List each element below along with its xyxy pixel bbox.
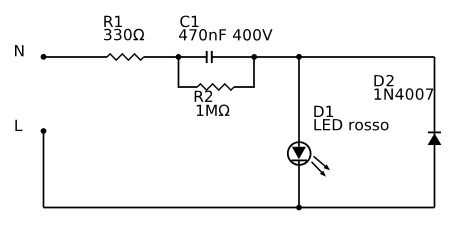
node L terminal dot (41, 128, 47, 134)
node junction right of C1 (251, 54, 257, 60)
label R2 (195, 91, 213, 102)
diode D2 (428, 132, 442, 145)
wire bottom return (44, 207, 435, 209)
resistor R1 (107, 54, 144, 60)
node junction below LED (296, 205, 302, 211)
wire R2 branch left drop (179, 57, 198, 88)
label D1 value LED rosso (314, 119, 388, 130)
wire from R1 to C1 left plate (144, 56, 206, 58)
node junction left of C1 (176, 54, 182, 60)
label D2 value 1N4007 (375, 88, 434, 100)
wire right vertical (434, 57, 436, 208)
wire vertical into LED anode (298, 57, 300, 147)
wire R2 branch right rise (234, 57, 254, 88)
label D1 (314, 106, 333, 117)
label C1 (180, 16, 198, 28)
label N (15, 45, 24, 56)
node junction above LED (296, 54, 302, 60)
resistor R2 (197, 84, 234, 90)
wire from LED cathode to bottom junction (298, 160, 300, 207)
label D2 (374, 75, 393, 86)
LED D1 (288, 142, 330, 177)
label R1 value 330ohm (104, 29, 144, 41)
wire vertical below node L (43, 131, 45, 208)
capacitor C1 (207, 51, 212, 63)
wire top left from node N to R1 (44, 56, 108, 58)
node N terminal dot (41, 54, 47, 60)
wire from C1 right plate to top-right corner (213, 56, 435, 58)
label C1 value 470nF 400V (179, 29, 273, 41)
label L (15, 120, 22, 131)
label R1 (104, 16, 122, 27)
label R2 value 1Mohm (197, 105, 230, 116)
